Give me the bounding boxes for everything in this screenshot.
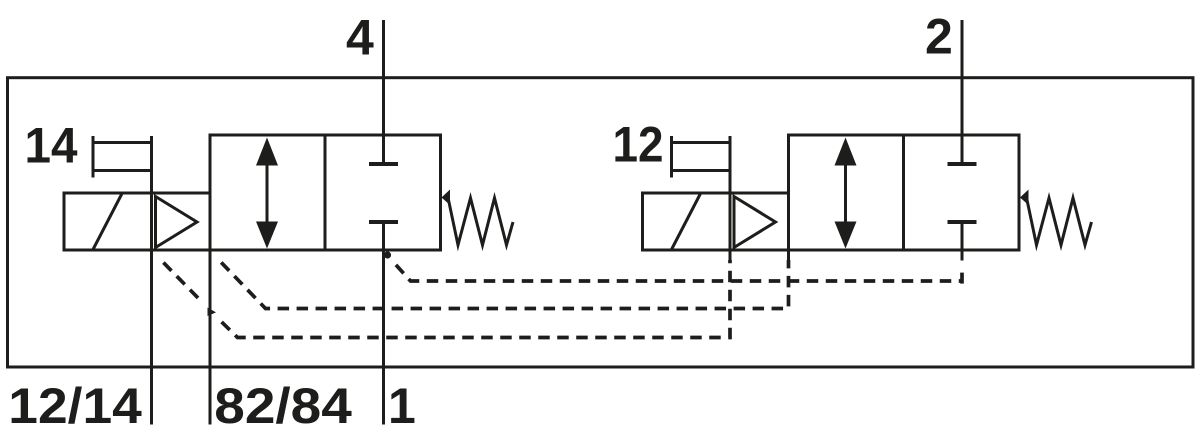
svg-text:2: 2 xyxy=(925,9,953,65)
svg-text:1: 1 xyxy=(388,378,416,434)
svg-text:14: 14 xyxy=(25,118,78,174)
svg-text:4: 4 xyxy=(346,10,374,66)
svg-text:82/84: 82/84 xyxy=(214,378,352,434)
svg-text:12/14: 12/14 xyxy=(8,378,142,434)
svg-text:12: 12 xyxy=(613,117,664,173)
